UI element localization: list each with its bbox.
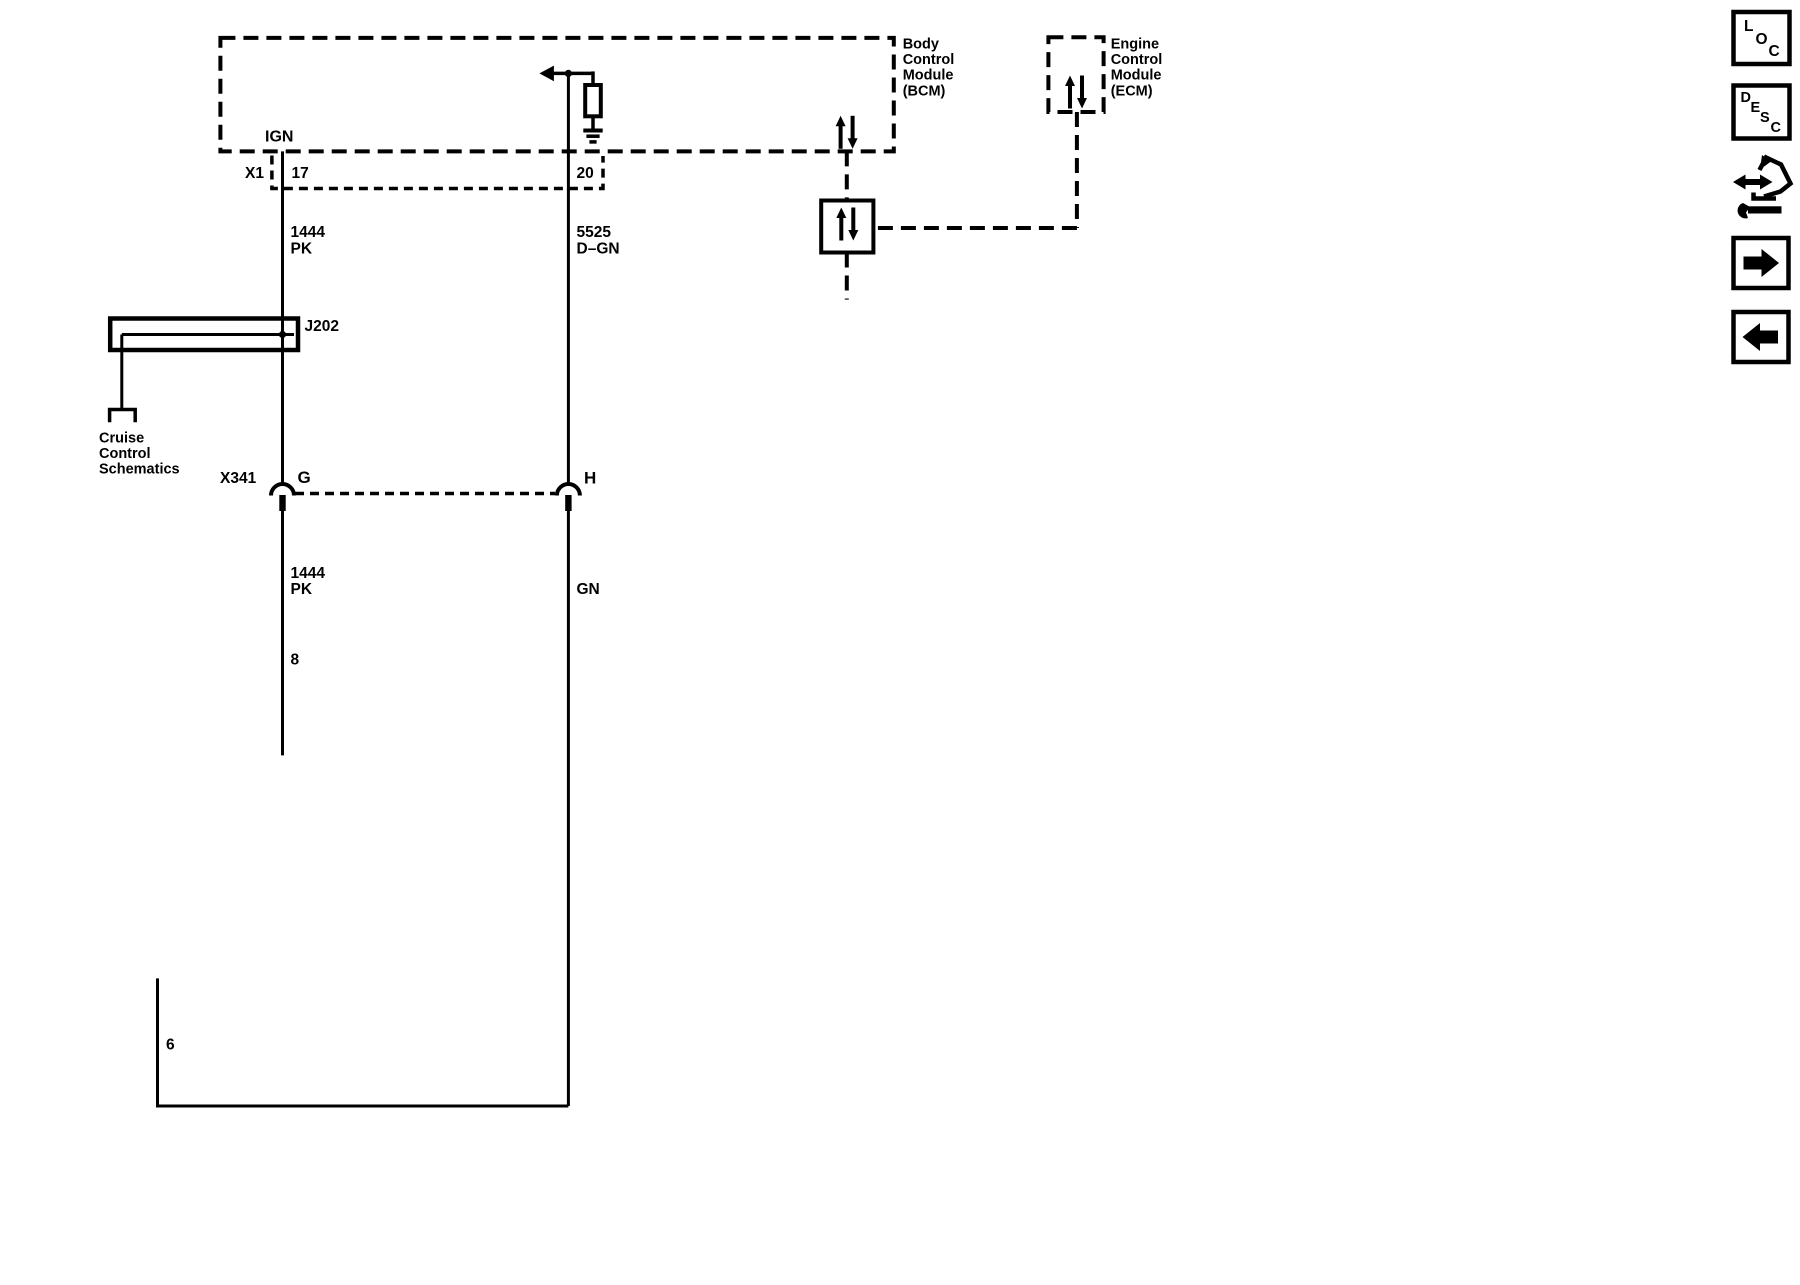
icon back arrow box — [1734, 312, 1789, 362]
icon wrench with arrows — [1733, 155, 1791, 218]
svg-text:X1: X1 — [245, 165, 264, 182]
ground in BCM — [583, 131, 602, 142]
label wire 1444 PK (upper) — [291, 224, 326, 258]
dashed comm link gateway to TCM — [845, 253, 849, 300]
node junction 5525 — [565, 70, 572, 77]
svg-text:6: 6 — [166, 1037, 175, 1054]
svg-text:S: S — [1760, 110, 1770, 126]
label wire 5525 D-GN — [577, 224, 620, 258]
module box ECM (Engine Control Module) — [1048, 37, 1103, 112]
node junction J202 — [279, 331, 286, 338]
module box BCM (Body Control Module) — [220, 38, 893, 151]
connector X341 pin H — [557, 484, 580, 511]
svg-text:H: H — [584, 469, 596, 488]
svg-text:E: E — [1751, 100, 1761, 116]
wire to resistor — [591, 71, 595, 85]
svg-text:IGN: IGN — [265, 129, 293, 146]
svg-text:(ECM): (ECM) — [1111, 83, 1153, 99]
comm arrows inside BCM — [836, 116, 858, 149]
label wire 1444 PK (lower) — [291, 565, 326, 598]
wire 1444 PK upper — [281, 151, 284, 484]
arrow into BCM — [539, 66, 554, 82]
resistor in BCM — [585, 85, 601, 116]
svg-text:Engine: Engine — [1111, 36, 1159, 52]
dashed comm link BCM to gateway — [845, 151, 849, 200]
dashed comm link ECM to gateway — [873, 226, 1077, 230]
wire shift lever bottom return — [156, 978, 159, 1106]
svg-text:17: 17 — [292, 165, 309, 182]
icon forward arrow box — [1734, 238, 1789, 288]
svg-text:8: 8 — [291, 652, 300, 669]
comm arrows inside ECM — [1065, 76, 1087, 109]
svg-text:O: O — [1756, 31, 1768, 48]
dashed comm link ECM down — [1075, 112, 1079, 228]
svg-text:D–GN: D–GN — [577, 241, 620, 258]
svg-text:L: L — [1744, 18, 1753, 35]
svg-text:Control: Control — [99, 446, 151, 462]
svg-text:PK: PK — [291, 581, 313, 598]
wire 5525 inside BCM — [548, 72, 593, 76]
comm gateway box — [821, 201, 873, 253]
svg-text:Schematics: Schematics — [99, 462, 180, 478]
splice pack J202 — [110, 319, 298, 351]
connector X1 dotted bracket — [272, 156, 603, 189]
label Cruise Control Schematics — [99, 431, 180, 478]
label BCM — [903, 36, 955, 99]
icon DESC box — [1734, 86, 1790, 139]
svg-text:C: C — [1771, 120, 1782, 136]
wire 5525 vertical — [567, 73, 570, 484]
svg-text:D: D — [1741, 90, 1751, 106]
svg-text:X341: X341 — [220, 470, 257, 487]
off-page bracket to cruise control — [110, 410, 136, 423]
dashed connector line X341 — [295, 492, 555, 496]
svg-text:Cruise: Cruise — [99, 431, 144, 447]
svg-text:Control: Control — [1111, 52, 1163, 68]
icon LOC box — [1734, 12, 1790, 64]
svg-text:C: C — [1769, 43, 1780, 60]
svg-text:Module: Module — [1111, 68, 1162, 84]
svg-text:Body: Body — [903, 36, 939, 52]
svg-text:1444: 1444 — [291, 565, 326, 582]
label ECM — [1111, 36, 1163, 99]
svg-text:20: 20 — [577, 165, 594, 182]
wire J202 to cruise control — [120, 335, 123, 409]
svg-text:(BCM): (BCM) — [903, 83, 946, 99]
svg-text:GN: GN — [577, 581, 600, 598]
svg-text:J202: J202 — [305, 318, 339, 335]
connector X341 pin G — [271, 484, 294, 511]
comm arrows in gateway box — [836, 208, 858, 241]
wire resistor to ground — [591, 116, 595, 129]
wire GN from H down — [567, 511, 570, 1106]
svg-text:Control: Control — [903, 52, 955, 68]
wire 1444 PK lower — [281, 511, 284, 755]
svg-text:Module: Module — [903, 68, 954, 84]
svg-text:PK: PK — [291, 241, 313, 258]
svg-text:G: G — [298, 468, 311, 487]
wire bottom horizontal return — [156, 1105, 568, 1108]
svg-text:5525: 5525 — [577, 224, 612, 241]
svg-text:1444: 1444 — [291, 224, 326, 241]
